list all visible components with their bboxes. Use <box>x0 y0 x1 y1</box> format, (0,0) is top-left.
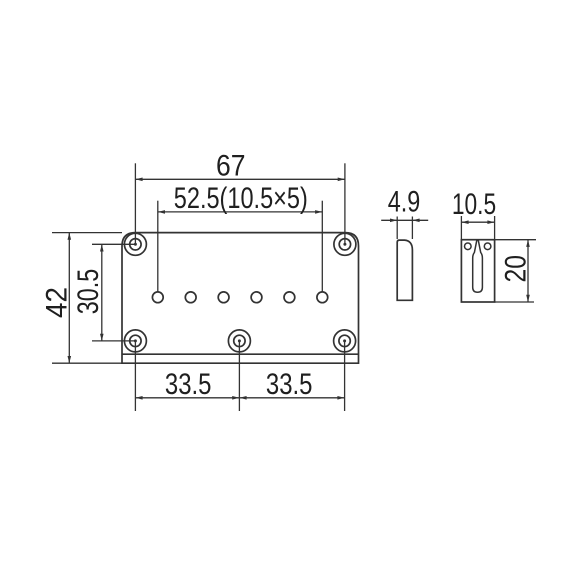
plate outline (front view) <box>122 233 359 364</box>
svg-text:33.5: 33.5 <box>266 368 313 401</box>
end view string slot <box>473 240 483 292</box>
screw hole bottom-left <box>124 330 146 352</box>
dimension 67 <box>135 163 345 244</box>
dimension 20 <box>495 240 536 302</box>
string hole 2 <box>185 292 196 303</box>
string hole 1 <box>152 292 163 303</box>
dimension 10.5 <box>461 216 494 240</box>
svg-text:4.9: 4.9 <box>388 186 421 219</box>
dimension 42 <box>52 233 122 364</box>
svg-text:52.5(10.5×5): 52.5(10.5×5) <box>174 182 308 215</box>
side view profile <box>397 240 412 300</box>
dimension 33.5 + 33.5 <box>135 341 344 411</box>
screw hole bottom-right <box>334 330 356 352</box>
svg-text:10.5: 10.5 <box>452 188 496 221</box>
plate bend line <box>122 353 359 355</box>
end view body <box>461 240 494 302</box>
end view screw hole right <box>484 243 491 250</box>
end view screw hole left <box>465 243 472 250</box>
screw hole top-left <box>124 233 146 255</box>
svg-text:67: 67 <box>216 150 246 183</box>
screw hole bottom-center <box>228 330 250 352</box>
svg-text:42: 42 <box>40 287 73 318</box>
string hole 5 <box>284 292 295 303</box>
string hole 4 <box>251 292 262 303</box>
svg-text:30.5: 30.5 <box>72 269 105 314</box>
dimension 52.5(10.5x5) <box>158 201 322 292</box>
screw hole top-right <box>334 233 356 255</box>
svg-text:20: 20 <box>499 255 532 283</box>
string hole 6 <box>317 292 328 303</box>
string hole 3 <box>218 292 229 303</box>
dimension 30.5 <box>92 244 135 341</box>
dimension 4.9 <box>381 217 428 240</box>
svg-text:33.5: 33.5 <box>165 368 212 401</box>
